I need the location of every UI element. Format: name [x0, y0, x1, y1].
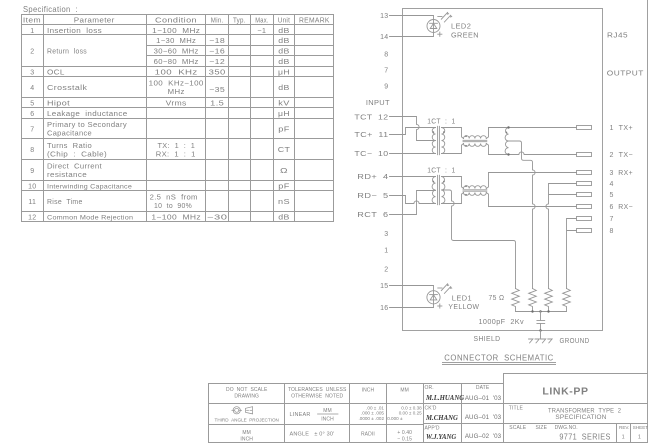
svg-text:4: 4 — [30, 85, 34, 92]
resistor R2 75 ohm — [529, 289, 537, 312]
svg-text:INPUT: INPUT — [366, 100, 390, 107]
wire pads 4 and 5 to resistor R3 with hop over RX- row — [546, 184, 577, 289]
pin 14 label — [380, 34, 388, 41]
svg-text:60−80 MHz: 60−80 MHz — [154, 59, 199, 66]
wire RCT pin6 to T2 primary center tap — [390, 191, 436, 215]
LED1 D1 yellow — [427, 284, 453, 308]
page right border — [647, 0, 649, 443]
svg-text:LINEAR: LINEAR — [290, 412, 311, 418]
svg-text:dB: dB — [278, 28, 290, 35]
svg-text:RD+ 4: RD+ 4 — [357, 174, 388, 181]
svg-text:OR.: OR. — [425, 385, 434, 391]
rail junction dots — [531, 310, 549, 312]
pin 13 label — [380, 13, 388, 20]
svg-text:μH: μH — [278, 111, 290, 118]
svg-text:TITLE: TITLE — [509, 406, 524, 412]
pin TC- 10 label — [354, 151, 388, 158]
svg-text:LED1: LED1 — [452, 296, 472, 303]
svg-text:THIRD ANGLE PROJECTION: THIRD ANGLE PROJECTION — [215, 418, 279, 423]
svg-text:LINK-PP: LINK-PP — [542, 386, 588, 398]
wire L3 center tap to resistor R2 with hops over RX+ and RX- rows — [509, 141, 536, 289]
svg-text:11: 11 — [28, 199, 36, 206]
chassis ground symbol — [529, 339, 553, 343]
svg-text:Turns Ratio: Turns Ratio — [47, 143, 92, 150]
pin TCT 12 label — [354, 115, 388, 122]
svg-text:16: 16 — [380, 305, 388, 312]
svg-text:1: 1 — [622, 435, 625, 441]
pin 3 label — [384, 231, 388, 238]
wire T2 secondary top to choke L2 — [442, 177, 464, 189]
wire RX- row to pad 6 — [489, 206, 577, 208]
svg-text:AUG–01 '03: AUG–01 '03 — [465, 414, 502, 421]
wire T2 secondary center tap to resistor R1 with hop over bottom wire — [442, 190, 516, 289]
pin 8 label — [384, 52, 388, 59]
svg-text:CT: CT — [278, 147, 291, 154]
svg-text:1: 1 — [638, 435, 641, 441]
svg-text:7: 7 — [30, 126, 34, 133]
svg-text:REMARK: REMARK — [299, 18, 330, 25]
svg-text:INCH: INCH — [321, 417, 334, 423]
INPUT label — [366, 100, 390, 107]
svg-text:Direct Current: Direct Current — [47, 164, 102, 171]
svg-text:OTHERWISE NOTED: OTHERWISE NOTED — [291, 394, 343, 400]
svg-text:YELLOW: YELLOW — [448, 304, 479, 311]
pin RCT 6 label — [357, 212, 388, 219]
pin label 4 — [610, 181, 614, 188]
svg-text:kV: kV — [278, 100, 290, 107]
svg-text:100 KHz−100: 100 KHz−100 — [149, 81, 204, 88]
svg-text:MHz: MHz — [168, 89, 185, 96]
svg-text:.0000 ± .002: .0000 ± .002 — [358, 416, 384, 421]
svg-text:3: 3 — [384, 231, 388, 238]
RJ45 pads pins 1-8 — [577, 126, 592, 233]
svg-text:Capacitance: Capacitance — [47, 131, 92, 138]
svg-text:3: 3 — [30, 69, 34, 76]
svg-text:1 TX+: 1 TX+ — [610, 125, 634, 132]
pin RD+ 4 label — [357, 174, 388, 181]
svg-text:resistance: resistance — [47, 172, 87, 179]
svg-text:nS: nS — [278, 199, 290, 206]
output autotransformer coil L3 — [505, 126, 510, 155]
svg-text:TOLERANCES UNLESS: TOLERANCES UNLESS — [288, 387, 347, 393]
common mode choke L2 — [463, 185, 487, 195]
transformer T1 — [432, 126, 445, 154]
wire TX+ row to pad 1 — [489, 127, 577, 129]
svg-text:Interwinding Capacitance: Interwinding Capacitance — [47, 183, 132, 190]
wire T1 secondary top to choke L1 — [442, 128, 464, 139]
svg-text:TC− 10: TC− 10 — [354, 151, 388, 158]
pin label 7 — [610, 216, 614, 223]
svg-text:dB: dB — [278, 49, 290, 56]
svg-text:LED2: LED2 — [451, 24, 471, 31]
svg-text:Min.: Min. — [211, 18, 224, 25]
pin TC+ 11 label — [354, 132, 388, 139]
svg-text:6: 6 — [30, 111, 34, 118]
svg-text:ANGLE ± 0° 30': ANGLE ± 0° 30' — [290, 432, 335, 438]
LED2 labels — [451, 24, 479, 40]
svg-text:SHIELD: SHIELD — [474, 336, 501, 343]
svg-text:2 TX−: 2 TX− — [610, 152, 634, 159]
svg-text:Condition: Condition — [155, 18, 197, 25]
svg-text:Insertion loss: Insertion loss — [47, 28, 102, 35]
capacitor C1 1000pF 2Kv — [537, 312, 545, 331]
svg-text:APP'D: APP'D — [425, 426, 440, 432]
RJ45 label — [607, 33, 628, 40]
svg-text:1−100 MHz: 1−100 MHz — [151, 214, 201, 221]
svg-text:Leakage inductance: Leakage inductance — [47, 111, 128, 118]
wire pin16 to LED1 anode — [390, 304, 434, 308]
svg-text:CK'D: CK'D — [425, 406, 437, 412]
svg-text:DATE: DATE — [476, 385, 490, 391]
svg-text:SIZE: SIZE — [536, 425, 548, 431]
svg-text:RD− 5: RD− 5 — [357, 193, 388, 200]
svg-text:5: 5 — [30, 100, 34, 107]
svg-text:2.5 nS from: 2.5 nS from — [150, 195, 198, 202]
wire T1 secondary bottom to choke L1 — [442, 144, 464, 154]
wire choke L2 bottom to RX- row — [486, 193, 488, 207]
pin 9 label — [384, 84, 388, 91]
svg-text:7: 7 — [384, 68, 388, 75]
resistor R1 75 ohm — [512, 289, 520, 312]
svg-text:1−30 MHz: 1−30 MHz — [156, 38, 196, 45]
svg-text:−30: −30 — [207, 214, 228, 221]
wire RD+ pin4 to T2 primary top — [390, 176, 436, 178]
svg-text:pF: pF — [278, 126, 290, 133]
svg-text:MM: MM — [400, 388, 409, 394]
svg-text:RJ45: RJ45 — [607, 33, 628, 40]
svg-text:Parameter: Parameter — [74, 18, 115, 25]
svg-text:dB: dB — [278, 85, 290, 92]
svg-text:13: 13 — [380, 13, 388, 20]
svg-text:1.5: 1.5 — [210, 100, 224, 107]
transformer T2 — [432, 175, 445, 204]
pin label 2 TX- — [610, 152, 634, 159]
svg-text:Max.: Max. — [255, 18, 269, 25]
svg-text:Crosstalk: Crosstalk — [47, 85, 88, 92]
svg-text:GROUND: GROUND — [560, 338, 590, 345]
svg-text:AUG–02 '03: AUG–02 '03 — [465, 433, 502, 440]
svg-text:MM: MM — [323, 408, 332, 414]
svg-text:AUG–01 '03: AUG–01 '03 — [465, 395, 502, 402]
svg-text:W.J.YANG: W.J.YANG — [426, 434, 456, 441]
svg-text:CONNECTOR SCHEMATIC: CONNECTOR SCHEMATIC — [444, 353, 554, 363]
svg-text:Specification :: Specification : — [23, 4, 78, 14]
pin RD- 5 label — [357, 193, 388, 200]
wire T2 secondary bottom to choke L2 — [442, 193, 464, 204]
SHIELD label — [474, 336, 501, 343]
wire TC+ pin11 to T1 primary top — [390, 128, 436, 135]
svg-text:−16: −16 — [209, 49, 225, 56]
svg-text:M.L.HUANG: M.L.HUANG — [425, 395, 464, 402]
svg-text:−18: −18 — [209, 38, 225, 45]
svg-text:10: 10 — [28, 183, 36, 190]
wire pin13 to LED2 cathode — [390, 16, 434, 20]
svg-text:Common Mode Rejection: Common Mode Rejection — [47, 214, 133, 221]
pin label 3 RX+ — [610, 170, 634, 177]
svg-text:15: 15 — [380, 283, 388, 290]
svg-text:1000pF 2Kv: 1000pF 2Kv — [479, 319, 525, 326]
resistor R3 75 ohm — [545, 289, 553, 312]
wire pin14 to LED2 anode — [390, 33, 434, 37]
svg-text:Primary to Secondary: Primary to Secondary — [47, 122, 127, 129]
svg-text:1CT : 1: 1CT : 1 — [427, 118, 455, 125]
connector body outline — [403, 9, 603, 331]
svg-text:REV.: REV. — [619, 425, 629, 430]
svg-text:−12: −12 — [209, 59, 225, 66]
svg-text:3 RX+: 3 RX+ — [610, 170, 634, 177]
svg-text:RCT 6: RCT 6 — [357, 212, 388, 219]
svg-text:−35: −35 — [209, 87, 225, 94]
svg-text:OCL: OCL — [47, 69, 65, 76]
pin label 1 TX+ — [610, 125, 634, 132]
svg-text:INCH: INCH — [240, 437, 253, 443]
svg-text:dB: dB — [278, 59, 290, 66]
pin 2 label — [384, 267, 388, 274]
wire choke L1 bottom to TX- row — [486, 144, 488, 155]
svg-text:dB: dB — [278, 38, 290, 45]
svg-text:M.CHANG: M.CHANG — [425, 415, 458, 422]
svg-text:RADII: RADII — [361, 432, 375, 438]
svg-text:(Chip : Cable): (Chip : Cable) — [47, 151, 107, 158]
svg-text:2: 2 — [30, 49, 34, 56]
svg-text:− 0.15: − 0.15 — [397, 436, 412, 442]
svg-text:9: 9 — [30, 168, 34, 175]
resistor R4 75 ohm — [563, 289, 571, 312]
svg-text:100 KHz: 100 KHz — [155, 69, 198, 76]
svg-text:Unit: Unit — [278, 18, 291, 25]
svg-text:1: 1 — [384, 248, 388, 255]
pin 1 label — [384, 248, 388, 255]
svg-text:+ 0.40: + 0.40 — [397, 430, 412, 436]
svg-text:DRAWING: DRAWING — [234, 394, 259, 400]
svg-text:9771 SERIES: 9771 SERIES — [559, 433, 610, 442]
transformer T1 ratio label 1CT : 1 — [427, 118, 455, 125]
wire shield line to chassis ground — [540, 331, 542, 340]
svg-text:TX: 1 : 1: TX: 1 : 1 — [158, 143, 196, 150]
svg-text:OUTPUT: OUTPUT — [607, 71, 644, 78]
svg-text:−1: −1 — [257, 28, 266, 35]
svg-text:Rise Time: Rise Time — [47, 199, 83, 206]
pin label 5 — [610, 192, 614, 199]
75 ohm value label — [489, 295, 505, 302]
wire pin15 to LED1 cathode — [390, 286, 434, 291]
pin label 6 RX- — [610, 204, 634, 211]
svg-text:2: 2 — [384, 267, 388, 274]
svg-text:6 RX−: 6 RX− — [610, 204, 634, 211]
wire RX+ row to pad 3 — [489, 172, 577, 174]
svg-text:30−60 MHz: 30−60 MHz — [154, 49, 199, 56]
junction dot on shield line — [539, 329, 541, 331]
svg-text:8: 8 — [610, 228, 614, 235]
svg-text:Hipot: Hipot — [47, 100, 70, 107]
svg-text:10 to 90%: 10 to 90% — [154, 203, 192, 210]
svg-text:4: 4 — [610, 181, 614, 188]
svg-text:MM: MM — [242, 430, 251, 436]
svg-text:Item: Item — [23, 18, 41, 25]
GROUND label — [560, 338, 590, 345]
svg-text:1CT : 1: 1CT : 1 — [427, 167, 455, 174]
svg-text:dB: dB — [278, 214, 290, 221]
transformer T2 ratio label 1CT : 1 — [427, 167, 455, 174]
svg-text:INCH: INCH — [362, 388, 375, 394]
wire TC- pin10 to T1 primary bottom — [390, 153, 436, 155]
pin 15 label — [380, 283, 388, 290]
svg-text:Return loss: Return loss — [47, 49, 87, 56]
svg-text:75 Ω: 75 Ω — [489, 295, 505, 302]
svg-text:Typ.: Typ. — [233, 18, 246, 25]
svg-text:DO NOT SCALE: DO NOT SCALE — [226, 387, 268, 393]
OUTPUT label — [607, 71, 644, 78]
wire choke L1 top to TX+ row — [486, 128, 488, 139]
wire TX- row to pad 2 with hop over tap wire — [489, 152, 577, 155]
LED1 labels — [448, 296, 479, 312]
LED2 D2 green — [427, 12, 453, 36]
pin 7 label — [384, 68, 388, 75]
pin 16 label — [380, 305, 388, 312]
svg-text:9: 9 — [384, 84, 388, 91]
wire RD- pin5 to T2 primary bottom with hop over RCT wire — [390, 196, 436, 204]
capacitor value label — [479, 319, 525, 326]
svg-text:Ω: Ω — [280, 168, 288, 175]
svg-text:1: 1 — [30, 28, 34, 35]
svg-text:350: 350 — [209, 69, 226, 76]
svg-text:14: 14 — [380, 34, 388, 41]
wire pads 7 and 8 to resistor R4 — [567, 219, 577, 289]
svg-text:μH: μH — [278, 69, 290, 76]
svg-text:RX: 1 : 1: RX: 1 : 1 — [156, 151, 196, 158]
svg-text:0.000 ±: 0.000 ± — [387, 416, 403, 421]
svg-text:12: 12 — [28, 214, 36, 221]
svg-text:5: 5 — [610, 192, 614, 199]
svg-text:DWG.NO.: DWG.NO. — [555, 425, 578, 431]
wire choke L2 top to RX+ row — [486, 173, 488, 189]
svg-text:8: 8 — [384, 52, 388, 59]
svg-text:1−100 MHz: 1−100 MHz — [152, 28, 200, 35]
svg-text:7: 7 — [610, 216, 614, 223]
common rail joining resistors — [516, 311, 567, 313]
svg-text:Vrms: Vrms — [166, 100, 187, 107]
svg-text:TCT 12: TCT 12 — [354, 115, 388, 122]
common mode choke L1 — [463, 135, 487, 146]
svg-text:SHEET: SHEET — [633, 425, 649, 430]
wire TCT pin12 to T1 center tap with hop over TC+ wire — [390, 117, 436, 141]
svg-text:SPECIFICATION: SPECIFICATION — [555, 414, 606, 421]
pin label 8 — [610, 228, 614, 235]
svg-text:GREEN: GREEN — [451, 33, 479, 40]
svg-text:pF: pF — [278, 183, 290, 190]
svg-text:8: 8 — [30, 147, 34, 154]
svg-text:TC+ 11: TC+ 11 — [354, 132, 388, 139]
svg-text:SCALE: SCALE — [509, 425, 526, 431]
